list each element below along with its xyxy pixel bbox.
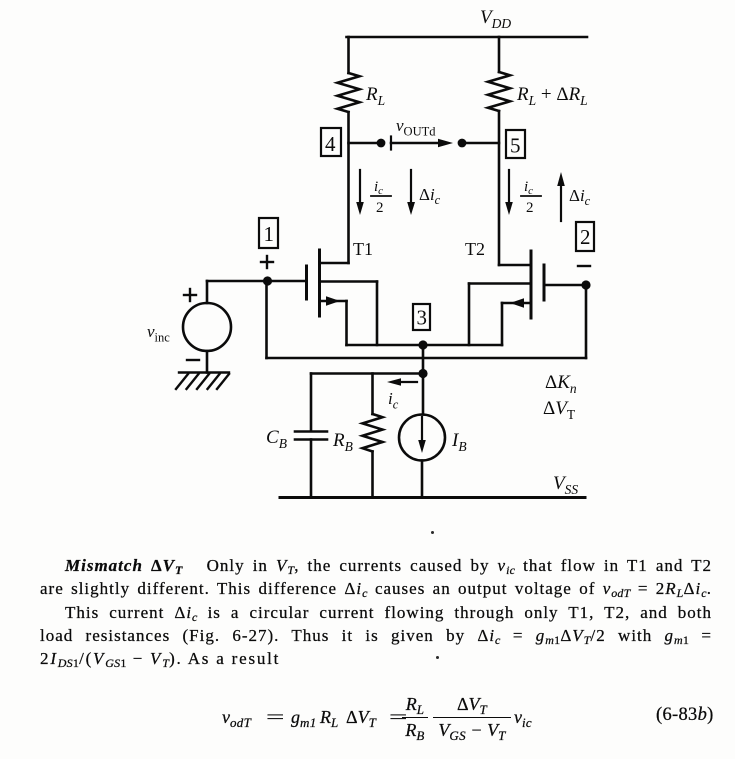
T1 channel bar [318, 250, 321, 316]
svg-text:T2: T2 [465, 239, 485, 259]
svg-text:ic: ic [388, 389, 399, 412]
speck above equation [436, 656, 439, 659]
svg-text:ΔVT: ΔVT [543, 398, 576, 422]
svg-text:5: 5 [510, 134, 521, 158]
label RL [365, 84, 385, 108]
paragraph line 5 [40, 651, 712, 667]
label IB [451, 430, 467, 454]
wire gates bottom run [267, 357, 587, 360]
wire sources run [347, 344, 503, 347]
wire node2 drop [585, 285, 588, 358]
svg-text:2: 2 [526, 200, 534, 216]
equation term RL [320, 708, 339, 726]
junction dot right output [458, 139, 467, 148]
equation equals 1 [264, 708, 276, 726]
resistor RB [363, 374, 383, 498]
svg-text:3: 3 [417, 306, 428, 330]
junction dot node 1 [263, 276, 272, 285]
capacitor CB [295, 374, 327, 498]
equation term vodT [222, 708, 251, 726]
label delta-ic right [569, 186, 591, 208]
wire right drain branch [498, 111, 501, 265]
equation term dVT [346, 708, 376, 726]
svg-text:4: 4 [325, 132, 336, 156]
equation fraction dVT/(VGS-VT) [433, 696, 511, 738]
label ic bottom [388, 389, 399, 412]
T1 gate wire [268, 280, 306, 283]
label delta Kn [545, 372, 577, 396]
T2 source drop [501, 303, 504, 345]
svg-text:RL + ΔRL: RL + ΔRL [516, 84, 588, 108]
junction dot node 3 [418, 340, 427, 349]
svg-text:ΔKn: ΔKn [545, 372, 577, 396]
svg-text:T1: T1 [353, 239, 373, 259]
label delta VT [543, 398, 576, 422]
current arrow ic bottom [387, 378, 417, 386]
paragraph line 3 [40, 605, 712, 621]
wire left drain branch [347, 112, 350, 263]
T1 source drop [345, 301, 348, 345]
plus sign vinc [184, 289, 196, 301]
paragraph line 2 [40, 581, 712, 597]
minus sign vinc [187, 359, 199, 361]
label delta-ic left [419, 185, 441, 207]
label RL+dRL [516, 84, 588, 108]
svg-text:Δic: Δic [419, 185, 441, 207]
current arrow delta-ic right (up) [557, 172, 565, 221]
svg-text:VSS: VSS [553, 473, 578, 497]
svg-text:RL: RL [365, 84, 385, 108]
svg-text:VDD: VDD [480, 7, 511, 31]
label ic/2 left [374, 179, 384, 216]
plus sign at node 1 [261, 256, 273, 268]
wire node4 to left dot [349, 142, 382, 145]
label CB [266, 427, 287, 451]
node 3 [413, 304, 430, 330]
wire right dot to node5 [462, 142, 499, 145]
T1 gate bar [305, 266, 308, 299]
resistor RL [338, 73, 360, 112]
source vinc circle [183, 303, 231, 351]
node 1 [259, 218, 278, 248]
svg-text:1: 1 [264, 222, 275, 246]
transistor T2 label [465, 239, 485, 259]
transistor T2 [469, 251, 586, 345]
equation term vic [514, 708, 532, 726]
junction dot bias [418, 369, 427, 378]
voltage arrow vOUTd [391, 137, 453, 150]
label vinc [147, 322, 170, 345]
junction dot left output [377, 139, 386, 148]
svg-text:IB: IB [451, 430, 467, 454]
wire right drain branch top [498, 37, 501, 72]
T1 bulk wire [320, 280, 378, 283]
T2 drain jog [499, 264, 531, 267]
current arrow ic/2 left [356, 170, 364, 215]
svg-text:RB: RB [332, 430, 353, 454]
equation term gm1 [291, 708, 317, 726]
node 4 [321, 128, 341, 156]
net VSS label [553, 473, 578, 497]
svg-text:vinc: vinc [147, 322, 170, 345]
T2 gate bar [543, 265, 546, 300]
T2 bulk wire [469, 282, 531, 285]
ground [176, 373, 229, 390]
svg-text:ic: ic [524, 179, 533, 197]
node 5 [506, 130, 525, 158]
equation equals 2 [387, 708, 399, 726]
current source IB [399, 415, 445, 498]
T2 channel bar [530, 251, 533, 318]
svg-text:2: 2 [580, 225, 591, 249]
wire VDD rail [347, 36, 588, 39]
minus sign at node 2 [578, 265, 590, 267]
current arrow ic/2 right [505, 170, 513, 215]
resistor RL+dRL [488, 72, 510, 111]
T2 gate wire [546, 284, 587, 287]
wire vinc to node1 [207, 280, 268, 283]
wire VSS rail [280, 496, 585, 499]
label ic/2 right [524, 179, 534, 216]
node 2 [576, 222, 594, 251]
wire vinc bottom lead [206, 351, 209, 373]
svg-text:vOUTd: vOUTd [396, 116, 436, 139]
paragraph line 1 [40, 558, 712, 574]
wire bias top run [311, 372, 423, 375]
svg-text:CB: CB [266, 427, 287, 451]
T2 bulk drop [468, 284, 471, 346]
svg-text:2: 2 [376, 200, 384, 216]
wire left drain branch top [347, 37, 350, 73]
T1 source wire with arrow [320, 300, 347, 303]
wire node1 drop [265, 281, 268, 358]
label RB [332, 430, 353, 454]
T1 bulk drop [376, 282, 379, 346]
transistor T1 [268, 250, 378, 345]
svg-text:ic: ic [374, 179, 383, 197]
net VDD label [480, 7, 511, 31]
label vOUTd [396, 116, 436, 139]
current arrow delta-ic left (down) [407, 170, 415, 215]
equation fraction RL/RB [402, 696, 428, 738]
equation number (6-83b) [656, 706, 714, 724]
wire vinc top lead [206, 281, 209, 303]
svg-text:Δic: Δic [569, 186, 591, 208]
speck above paragraph [431, 531, 434, 534]
paragraph line 4 [40, 628, 712, 644]
T2 source wire with arrow [502, 302, 531, 305]
T1 drain jog [320, 262, 349, 265]
wire node3 drop to bias [422, 345, 425, 415]
junction dot node 2 [581, 280, 590, 289]
transistor T1 label [353, 239, 373, 259]
